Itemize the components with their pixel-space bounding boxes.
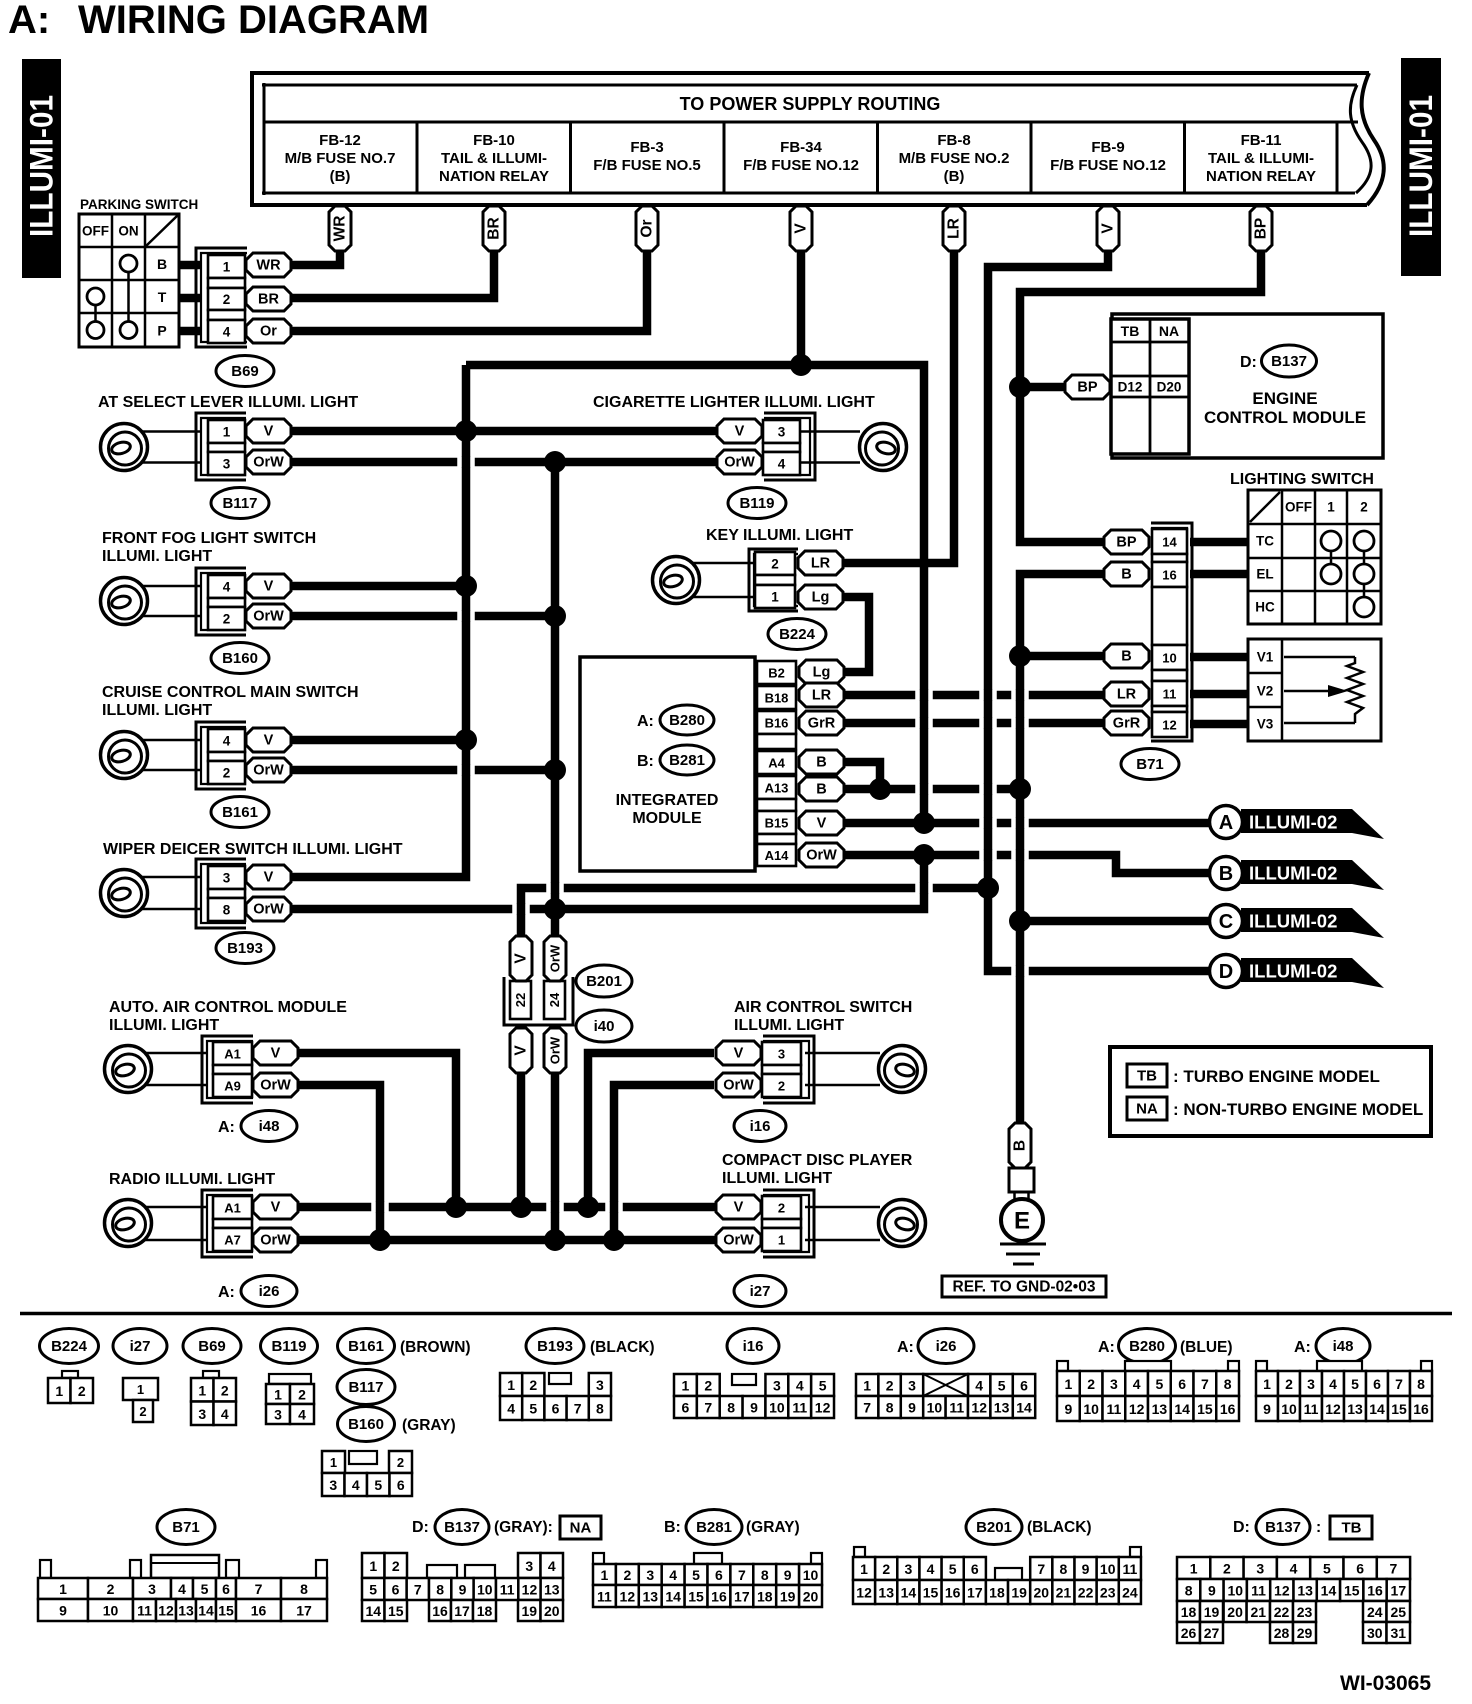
connector i48 pins: [202, 1036, 298, 1103]
svg-text:23: 23: [1297, 1604, 1313, 1620]
wire B201 pin22 V lower: [517, 1072, 526, 1207]
connector i27 pinout: [123, 1378, 158, 1422]
svg-text:LR: LR: [1117, 687, 1137, 703]
svg-text:OrW: OrW: [260, 1233, 291, 1249]
svg-text:8: 8: [1417, 1376, 1425, 1392]
svg-text:1: 1: [55, 1383, 63, 1399]
svg-text:V: V: [793, 223, 810, 234]
svg-text:OrW: OrW: [260, 1078, 291, 1094]
svg-text:5: 5: [529, 1401, 537, 1417]
wire B16 vertical to ground: [1020, 574, 1104, 1123]
connector i48 pinout: [1256, 1361, 1432, 1421]
svg-text:6: 6: [1373, 1376, 1381, 1392]
svg-text:B16: B16: [765, 716, 789, 731]
svg-text:D: D: [1219, 961, 1233, 983]
svg-text:8: 8: [596, 1401, 604, 1417]
svg-text:4: 4: [178, 1581, 186, 1597]
svg-text:5: 5: [1155, 1376, 1163, 1392]
svg-text:15: 15: [388, 1603, 404, 1619]
svg-text:1: 1: [1263, 1376, 1271, 1392]
svg-text:TB: TB: [1121, 323, 1140, 339]
svg-text:FB-9: FB-9: [1091, 139, 1124, 156]
svg-text:A:: A:: [8, 0, 50, 42]
flag B ILLUMI-02: [1210, 857, 1385, 891]
svg-text:3: 3: [773, 1378, 781, 1394]
svg-text:CRUISE CONTROL MAIN SWITCH: CRUISE CONTROL MAIN SWITCH: [102, 684, 359, 701]
svg-text:1: 1: [369, 1558, 377, 1574]
svg-text:(GRAY):: (GRAY):: [494, 1519, 553, 1536]
svg-text:21: 21: [1056, 1585, 1072, 1601]
svg-text:OrW: OrW: [723, 1233, 754, 1249]
svg-text:10: 10: [803, 1567, 819, 1583]
wire V FB-34 drop: [797, 248, 806, 365]
svg-text:BP: BP: [1077, 380, 1097, 396]
connector B160 pinout: [322, 1451, 412, 1496]
wire B15 V row to flag A: [842, 819, 1211, 828]
svg-text:12: 12: [1129, 1401, 1145, 1417]
svg-text:A13: A13: [765, 781, 789, 796]
svg-text:E: E: [1014, 1208, 1030, 1235]
svg-text:REF. TO GND-02•03: REF. TO GND-02•03: [953, 1279, 1096, 1296]
svg-text:RADIO ILLUMI. LIGHT: RADIO ILLUMI. LIGHT: [109, 1171, 275, 1188]
svg-text:12: 12: [815, 1400, 831, 1416]
parking switch: [79, 197, 198, 347]
label B160: [211, 643, 269, 674]
svg-text:14: 14: [901, 1585, 917, 1601]
wire fog OrW: [290, 612, 555, 621]
svg-text:BP: BP: [1253, 218, 1270, 240]
svg-text:18: 18: [1181, 1604, 1197, 1620]
svg-text:MODULE: MODULE: [632, 810, 702, 827]
svg-text:(BLACK): (BLACK): [590, 1339, 655, 1356]
svg-text:7: 7: [255, 1581, 263, 1597]
svg-text:A:: A:: [218, 1284, 235, 1301]
svg-text:13: 13: [1347, 1401, 1363, 1417]
svg-text:ILLUMI-02: ILLUMI-02: [1249, 812, 1337, 833]
svg-text:WR: WR: [332, 216, 349, 242]
svg-text:2: 2: [778, 1079, 785, 1094]
svg-text:TC: TC: [1256, 534, 1274, 549]
svg-text:1: 1: [507, 1377, 515, 1393]
svg-text:2: 2: [1223, 1561, 1231, 1577]
label FRONT FOG LIGHT SWITCH ILLUMI. LIGHT: [102, 530, 316, 565]
svg-text:OrW: OrW: [253, 609, 284, 625]
svg-text:TB: TB: [1342, 1520, 1362, 1537]
svg-text:24: 24: [1122, 1585, 1138, 1601]
connector i26 pins: [202, 1190, 298, 1257]
connector B71 pinout: [38, 1555, 327, 1621]
connector i16 pins: [716, 1036, 814, 1103]
svg-text:3: 3: [198, 1406, 206, 1422]
svg-text:V: V: [264, 870, 274, 886]
svg-text:(B): (B): [944, 168, 965, 185]
svg-text:M/B FUSE NO.7: M/B FUSE NO.7: [285, 150, 396, 167]
svg-text:A7: A7: [224, 1233, 241, 1248]
svg-text:OrW: OrW: [548, 1036, 563, 1064]
svg-text:17: 17: [296, 1603, 312, 1619]
svg-text:2: 2: [78, 1383, 86, 1399]
svg-text:F/B FUSE NO.12: F/B FUSE NO.12: [1050, 157, 1166, 174]
right banner ILLUMI-01: [1401, 58, 1441, 276]
wire air OrW elbow: [614, 1085, 714, 1240]
svg-text:28: 28: [1274, 1625, 1290, 1641]
power supply routing box: [250, 71, 1384, 207]
wire V1: [1190, 653, 1250, 662]
svg-text:10: 10: [927, 1400, 943, 1416]
svg-text:2: 2: [704, 1378, 712, 1394]
label i40: [576, 1010, 632, 1042]
legend TB/NA: [1110, 1047, 1431, 1136]
svg-text:ILLUMI. LIGHT: ILLUMI. LIGHT: [109, 1017, 219, 1034]
junction dots: [369, 354, 1031, 1251]
svg-text:2: 2: [221, 1382, 229, 1398]
svg-text:2: 2: [397, 1455, 404, 1470]
svg-text:B161: B161: [222, 804, 258, 821]
svg-text:ILLUMI. LIGHT: ILLUMI. LIGHT: [734, 1017, 844, 1034]
svg-text:i48: i48: [1333, 1338, 1354, 1355]
svg-text:V: V: [264, 733, 274, 749]
connector B281 pinout: [593, 1553, 822, 1607]
svg-text:WR: WR: [256, 258, 281, 274]
svg-text:14: 14: [198, 1603, 214, 1619]
svg-text:(B): (B): [330, 168, 351, 185]
svg-text:22: 22: [1078, 1585, 1094, 1601]
svg-text:12: 12: [856, 1585, 872, 1601]
wire fog V: [290, 582, 466, 591]
svg-text:12: 12: [158, 1603, 174, 1619]
label WIPER DEICER SWITCH ILLUMI. LIGHT: [103, 841, 403, 858]
svg-text:18: 18: [989, 1585, 1005, 1601]
svg-text:13: 13: [1152, 1401, 1168, 1417]
svg-text:5: 5: [692, 1567, 700, 1583]
wire B10 row: [1020, 652, 1104, 661]
svg-text:B280: B280: [669, 712, 705, 729]
svg-text:i16: i16: [743, 1338, 764, 1355]
svg-text:16: 16: [1162, 568, 1176, 583]
svg-text:B137: B137: [1265, 1519, 1301, 1536]
svg-text:3: 3: [1307, 1376, 1315, 1392]
svg-text:2: 2: [1087, 1376, 1095, 1392]
label A: B280 (BLUE): [1098, 1329, 1233, 1364]
label KEY ILLUMI. LIGHT: [706, 527, 853, 544]
svg-text:7: 7: [414, 1582, 422, 1598]
svg-text:B224: B224: [51, 1338, 88, 1355]
svg-text:OrW: OrW: [253, 763, 284, 779]
svg-text:15: 15: [1197, 1401, 1213, 1417]
svg-text:Or: Or: [639, 219, 656, 237]
svg-text:2: 2: [223, 612, 231, 627]
svg-text:14: 14: [1174, 1401, 1190, 1417]
label B224 bottom: [40, 1329, 99, 1364]
svg-text:B2: B2: [768, 666, 785, 681]
label B160 (GRAY): [338, 1407, 456, 1442]
svg-text:24: 24: [1367, 1604, 1383, 1620]
svg-text:D12: D12: [1118, 380, 1143, 395]
svg-text:(BLACK): (BLACK): [1027, 1519, 1092, 1536]
ref to gnd box: [942, 1276, 1106, 1297]
svg-text:T: T: [158, 289, 167, 305]
svg-text:3: 3: [596, 1377, 604, 1393]
svg-text:A14: A14: [765, 848, 790, 863]
svg-text:TO POWER SUPPLY ROUTING: TO POWER SUPPLY ROUTING: [680, 94, 941, 114]
svg-text:7: 7: [863, 1400, 871, 1416]
label CIGARETTE LIGHTER ILLUMI. LIGHT: [593, 394, 875, 411]
svg-text:V: V: [271, 1046, 281, 1062]
svg-text:9: 9: [908, 1400, 916, 1416]
svg-text:3: 3: [778, 425, 786, 440]
svg-text:B18: B18: [765, 691, 789, 706]
ground E: [1000, 1123, 1046, 1264]
svg-text:3: 3: [908, 1378, 916, 1394]
label B161 (BROWN): [338, 1329, 471, 1364]
svg-text:OrW: OrW: [253, 902, 284, 918]
svg-text:ILLUMI-01: ILLUMI-01: [1403, 95, 1439, 237]
svg-text:GrR: GrR: [1113, 716, 1141, 732]
svg-text:COMPACT DISC PLAYER: COMPACT DISC PLAYER: [722, 1152, 913, 1169]
label CRUISE CONTROL MAIN SWITCH ILLUMI. LIGHT: [102, 684, 359, 719]
svg-text:C: C: [1219, 911, 1233, 933]
svg-text:B137: B137: [1271, 353, 1307, 370]
svg-text:Or: Or: [260, 324, 277, 340]
engine control module: [1111, 314, 1383, 458]
wire Or net: [290, 248, 647, 331]
svg-text:11: 11: [1122, 1561, 1137, 1577]
svg-text:B: B: [816, 782, 826, 798]
label B117 bottom: [337, 1370, 395, 1405]
svg-text:1: 1: [274, 1387, 282, 1403]
svg-text:BR: BR: [486, 217, 503, 239]
label AIR CONTROL SWITCH ILLUMI. LIGHT: [734, 999, 912, 1034]
svg-text:i40: i40: [594, 1018, 615, 1035]
svg-text:6: 6: [971, 1561, 979, 1577]
svg-text:20: 20: [1227, 1604, 1243, 1620]
svg-text:9: 9: [750, 1400, 758, 1416]
svg-text:B119: B119: [271, 1338, 306, 1355]
svg-text:9: 9: [59, 1603, 67, 1619]
tag V vertical FB-34: [790, 206, 812, 251]
svg-text:4: 4: [221, 1406, 229, 1422]
label A: i48 bottom: [1294, 1329, 1370, 1364]
svg-text:13: 13: [1297, 1583, 1313, 1599]
svg-text:13: 13: [994, 1400, 1010, 1416]
svg-text:8: 8: [1224, 1376, 1232, 1392]
svg-text:4: 4: [298, 1407, 306, 1423]
svg-text:B160: B160: [348, 1416, 384, 1433]
svg-text:1: 1: [682, 1378, 690, 1394]
svg-text:12: 12: [971, 1400, 987, 1416]
svg-text:A:: A:: [1294, 1339, 1311, 1356]
connector B119 pinout: [266, 1374, 314, 1424]
svg-text:2: 2: [298, 1387, 306, 1403]
svg-text:20: 20: [544, 1603, 560, 1619]
connector B160 pins: [196, 568, 291, 635]
lamp cigarette lighter: [760, 424, 907, 471]
svg-text:V: V: [735, 424, 745, 440]
svg-text:V: V: [264, 579, 274, 595]
svg-text:PARKING SWITCH: PARKING SWITCH: [80, 197, 198, 212]
tag BP to D12: [1065, 375, 1110, 399]
svg-text:7: 7: [1037, 1561, 1045, 1577]
wire A13 B row: [842, 785, 1020, 794]
svg-text:4: 4: [1290, 1561, 1298, 1577]
svg-text:8: 8: [300, 1581, 308, 1597]
svg-text:4: 4: [223, 580, 231, 595]
wire i48 V elbow: [299, 1053, 456, 1207]
connector i27 pins: [716, 1190, 814, 1257]
svg-text:NATION RELAY: NATION RELAY: [1206, 168, 1316, 185]
label B201: [576, 965, 632, 997]
svg-text:9: 9: [1064, 1401, 1072, 1417]
svg-text:V: V: [271, 1200, 281, 1216]
svg-text:1: 1: [223, 425, 231, 440]
svg-text:9: 9: [1263, 1401, 1271, 1417]
label i27: [734, 1276, 786, 1307]
svg-text:24: 24: [547, 992, 562, 1007]
svg-text:INTEGRATED: INTEGRATED: [616, 792, 719, 809]
label B69: [216, 356, 274, 387]
svg-text:4: 4: [778, 457, 786, 472]
lamp air control switch: [805, 1046, 926, 1093]
svg-text:1: 1: [198, 1382, 206, 1398]
wire cruise OrW: [290, 766, 555, 775]
svg-text:OrW: OrW: [806, 848, 837, 864]
svg-text:17: 17: [454, 1603, 470, 1619]
svg-text:V3: V3: [1257, 717, 1274, 732]
svg-text:BP: BP: [1116, 535, 1136, 551]
svg-text:V: V: [1100, 223, 1117, 234]
svg-text:8: 8: [1185, 1583, 1193, 1599]
label D: B137 : TB: [1233, 1510, 1372, 1545]
connector B137-NA pinout: [362, 1553, 563, 1621]
svg-text:F/B FUSE NO.12: F/B FUSE NO.12: [743, 157, 859, 174]
label B193 (BLACK): [526, 1329, 655, 1364]
svg-text:B: B: [816, 755, 826, 771]
svg-text:16: 16: [432, 1603, 448, 1619]
svg-text:8: 8: [886, 1400, 894, 1416]
svg-text:FB-10: FB-10: [473, 132, 515, 149]
svg-text:WI-03065: WI-03065: [1340, 1672, 1431, 1695]
svg-text:12: 12: [620, 1589, 636, 1605]
svg-text:18: 18: [757, 1589, 773, 1605]
tag WR vertical: [329, 206, 351, 251]
label WI-03065: [1340, 1672, 1431, 1695]
svg-text:LR: LR: [811, 556, 831, 572]
svg-text:6: 6: [715, 1567, 723, 1583]
wire V bus AT-cig: [290, 427, 718, 436]
svg-text:V: V: [264, 424, 274, 440]
svg-text:4: 4: [223, 734, 231, 749]
wire BP D12: [1020, 383, 1066, 392]
svg-text:19: 19: [1204, 1604, 1220, 1620]
svg-text:(BROWN): (BROWN): [400, 1339, 471, 1356]
svg-text:6: 6: [1020, 1378, 1028, 1394]
svg-text:B160: B160: [222, 650, 258, 667]
svg-text:(GRAY): (GRAY): [402, 1417, 456, 1434]
svg-text:16: 16: [945, 1585, 961, 1601]
wire crossing gaps: [371, 457, 1029, 1213]
svg-text:1: 1: [860, 1561, 868, 1577]
svg-text:TAIL & ILLUMI-: TAIL & ILLUMI-: [1208, 150, 1314, 167]
svg-text:4: 4: [669, 1567, 677, 1583]
svg-text:2: 2: [529, 1377, 537, 1393]
svg-text:3: 3: [1256, 1561, 1264, 1577]
svg-text:ENGINE: ENGINE: [1252, 389, 1317, 408]
svg-text:WIPER DEICER SWITCH ILLUMI. LI: WIPER DEICER SWITCH ILLUMI. LIGHT: [103, 841, 403, 858]
wire bus 888 + pin22 V stub: [521, 888, 988, 936]
svg-text:Lg: Lg: [812, 590, 830, 606]
svg-text:2: 2: [223, 292, 231, 307]
svg-text:5: 5: [374, 1477, 382, 1493]
label B193: [216, 933, 274, 964]
svg-text:17: 17: [967, 1585, 983, 1601]
svg-text:A: A: [1219, 812, 1233, 834]
svg-text:i16: i16: [750, 1118, 771, 1135]
wire V3: [1190, 720, 1250, 729]
label RADIO ILLUMI. LIGHT: [109, 1171, 275, 1188]
svg-text:i48: i48: [259, 1118, 280, 1135]
connector B280 pinout: [1057, 1361, 1239, 1421]
svg-text:V: V: [513, 1045, 530, 1056]
svg-text:TB: TB: [1137, 1068, 1157, 1085]
svg-text:FB-8: FB-8: [937, 132, 970, 149]
wire wiper V + vertical: [290, 365, 466, 877]
svg-text:7: 7: [574, 1401, 582, 1417]
svg-text:3: 3: [329, 1477, 337, 1493]
svg-text:LIGHTING SWITCH: LIGHTING SWITCH: [1230, 471, 1374, 488]
svg-text:5: 5: [1351, 1376, 1359, 1392]
svg-text:B15: B15: [765, 816, 789, 831]
tag Or vertical: [636, 206, 658, 251]
svg-text:LR: LR: [946, 218, 963, 239]
svg-text:8: 8: [436, 1582, 444, 1598]
svg-text:M/B FUSE NO.2: M/B FUSE NO.2: [899, 150, 1010, 167]
connector B117 pins: [196, 413, 291, 480]
svg-text:1: 1: [1064, 1376, 1072, 1392]
label i16: [734, 1111, 786, 1142]
svg-text:B193: B193: [227, 940, 263, 957]
svg-text:2: 2: [1360, 500, 1368, 515]
svg-text:OrW: OrW: [253, 455, 284, 471]
svg-text:14: 14: [1321, 1583, 1337, 1599]
svg-text:29: 29: [1297, 1625, 1313, 1641]
label AT SELECT LEVER ILLUMI. LIGHT: [98, 394, 358, 411]
wire LR drop to key: [843, 248, 954, 563]
svg-text:B201: B201: [976, 1519, 1012, 1536]
svg-text:D:: D:: [412, 1519, 429, 1536]
svg-text:10: 10: [477, 1582, 493, 1598]
svg-text:6: 6: [1356, 1561, 1364, 1577]
svg-text:7: 7: [1390, 1561, 1398, 1577]
label i27 bottom: [113, 1329, 167, 1364]
flag C ILLUMI-02: [1210, 905, 1385, 939]
svg-text:3: 3: [223, 457, 231, 472]
svg-text:5: 5: [1323, 1561, 1331, 1577]
svg-text:25: 25: [1390, 1604, 1406, 1620]
label B224: [768, 619, 826, 650]
svg-text:NATION RELAY: NATION RELAY: [439, 168, 549, 185]
wire V FB-9 net: [988, 248, 1211, 971]
svg-text:CIGARETTE LIGHTER ILLUMI. LIGH: CIGARETTE LIGHTER ILLUMI. LIGHT: [593, 394, 875, 411]
tag LR vertical: [943, 206, 965, 251]
wire parking P to B69 pin4: [177, 327, 202, 336]
tag BR vertical: [483, 206, 505, 251]
svg-text:V1: V1: [1257, 650, 1274, 665]
connector B161 pins: [196, 722, 291, 789]
svg-text:: NON-TURBO ENGINE MODEL: : NON-TURBO ENGINE MODEL: [1173, 1100, 1423, 1119]
svg-text:30: 30: [1367, 1625, 1383, 1641]
svg-text:5: 5: [201, 1581, 209, 1597]
svg-text:A9: A9: [224, 1079, 241, 1094]
